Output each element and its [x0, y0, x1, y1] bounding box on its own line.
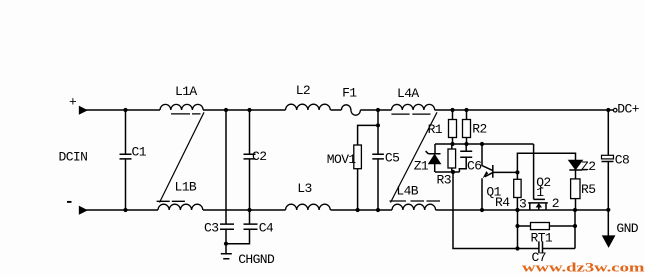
- svg-text:1: 1: [536, 185, 544, 200]
- svg-text:L4A: L4A: [397, 86, 419, 101]
- zener Z2: [569, 170, 587, 179]
- svg-text:Z1: Z1: [414, 159, 429, 174]
- inductor L4A: [392, 104, 435, 110]
- svg-text:R3: R3: [437, 172, 451, 187]
- resistor R4: [516, 172, 518, 210]
- wire R3 node to C7 bus: [453, 172, 518, 249]
- ground GND: [607, 210, 609, 236]
- svg-text:www.dz3w.com: www.dz3w.com: [522, 260, 645, 275]
- svg-text:R5: R5: [581, 182, 595, 197]
- resistor R5: [571, 179, 580, 199]
- svg-text:+: +: [69, 94, 77, 109]
- svg-text:2: 2: [552, 196, 559, 211]
- wire gate node (R1/R2 bottom bus): [435, 143, 534, 145]
- resistor R1: [452, 110, 454, 144]
- core line L4: [391, 112, 438, 202]
- svg-text:R1: R1: [428, 122, 443, 137]
- svg-text:R2: R2: [472, 121, 486, 136]
- capacitor C2: [244, 110, 256, 210]
- svg-text:C6: C6: [467, 158, 481, 173]
- svg-text:C8: C8: [615, 152, 629, 167]
- svg-text:C3: C3: [204, 221, 218, 236]
- svg-text:RT1: RT1: [531, 230, 553, 245]
- inductor L2: [286, 104, 331, 110]
- fuse F1: [341, 105, 360, 115]
- svg-text:Z2: Z2: [581, 159, 595, 174]
- core line L1: [160, 112, 205, 202]
- capacitor C4: [226, 210, 258, 244]
- svg-text:L3: L3: [297, 181, 311, 196]
- node + terminal: [80, 107, 87, 114]
- svg-text:C2: C2: [252, 149, 266, 164]
- svg-text:F1: F1: [342, 86, 357, 101]
- inductor L1A: [160, 104, 203, 110]
- svg-text:L1A: L1A: [175, 84, 197, 99]
- inductor L4B: [392, 204, 436, 210]
- wire base node to Z2: [517, 153, 575, 172]
- inductor L3: [286, 204, 331, 210]
- zener Z1: [426, 144, 441, 172]
- label -: [67, 201, 72, 203]
- svg-text:C5: C5: [385, 151, 399, 166]
- node DC+ terminal: [613, 108, 617, 112]
- wire Q1 base: [493, 171, 518, 173]
- wire bottom rail: [86, 209, 608, 211]
- capacitor C6: [459, 144, 472, 172]
- inductor L1B: [158, 204, 203, 210]
- svg-text:3: 3: [519, 196, 526, 211]
- svg-text:C4: C4: [259, 221, 274, 236]
- svg-text:C1: C1: [132, 145, 147, 160]
- capacitor C7: [518, 241, 576, 253]
- svg-text:GND: GND: [616, 221, 638, 236]
- node C3/C4 junction: [224, 242, 228, 246]
- wire top rail: [86, 109, 613, 111]
- ground CHGND: [221, 254, 232, 259]
- capacitor C5: [372, 110, 384, 210]
- capacitor C1: [120, 110, 132, 210]
- transistor Q2 (MOSFET): [534, 144, 545, 199]
- svg-text:DC+: DC+: [617, 102, 639, 117]
- capacitor C8: [602, 110, 614, 210]
- wire Y-cap branch (top rail to C3): [225, 110, 227, 224]
- wire Z1/R3 bottom: [435, 171, 459, 173]
- resistor R3: [451, 144, 453, 172]
- svg-text:CHGND: CHGND: [238, 252, 275, 267]
- svg-text:R4: R4: [495, 195, 510, 210]
- node F1 output junction: [376, 108, 380, 112]
- capacitor C3: [220, 224, 234, 254]
- svg-text:L4B: L4B: [396, 184, 418, 199]
- resistor R2: [466, 110, 468, 144]
- thermistor RT1: [518, 210, 576, 249]
- svg-text:DCIN: DCIN: [59, 150, 88, 165]
- svg-text:L1B: L1B: [175, 180, 197, 195]
- svg-text:L2: L2: [296, 83, 310, 98]
- transistor Q1: [482, 144, 493, 210]
- node - terminal: [80, 207, 87, 214]
- varistor MOV1: [358, 125, 378, 210]
- svg-text:MOV1: MOV1: [327, 152, 357, 167]
